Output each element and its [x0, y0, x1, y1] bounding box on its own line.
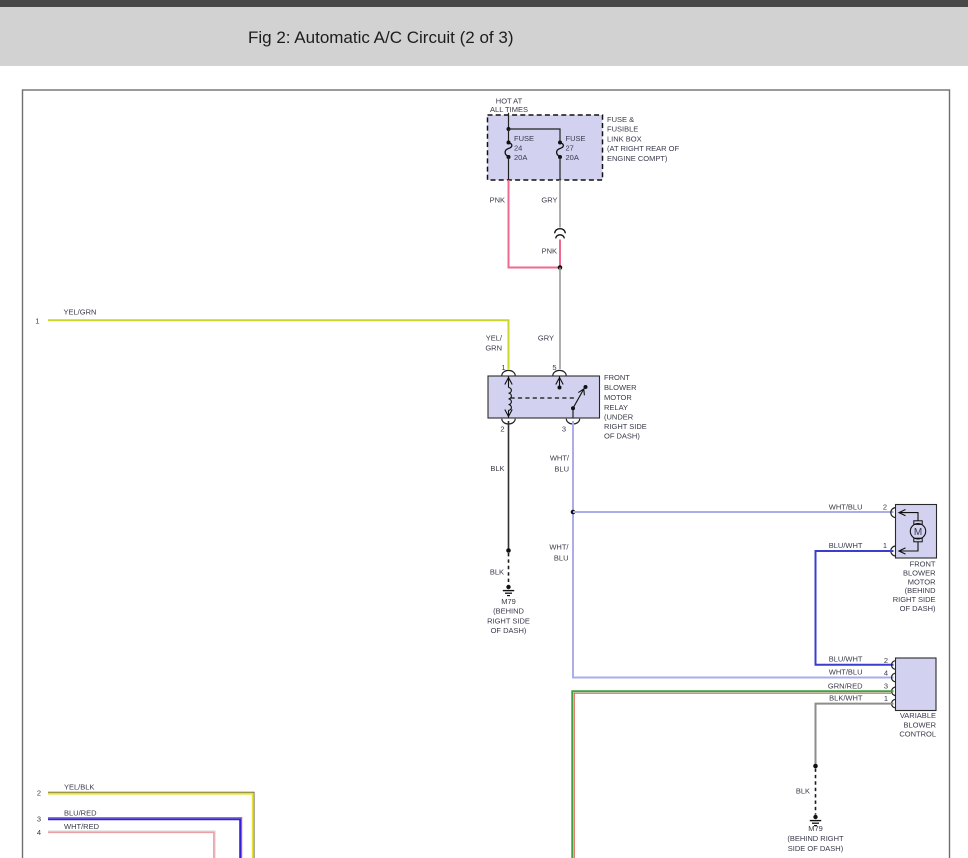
svg-text:CONTROL: CONTROL: [899, 730, 936, 739]
wire PNK below connector: [559, 240, 561, 267]
wire WHT/RED: [48, 831, 215, 858]
node junction WHT/BLU: [571, 510, 576, 515]
pin 3 connector arc: [566, 419, 579, 424]
label VARIABLE BLOWER CONTROL: [899, 711, 936, 739]
wire YEL/GRN to relay pin 1: [48, 320, 509, 369]
svg-text:BLK/WHT: BLK/WHT: [829, 694, 863, 703]
ground M79: [503, 585, 514, 596]
svg-text:BLU: BLU: [554, 465, 569, 474]
inline connector on GRY/PNK wire: [555, 229, 566, 239]
label WHT/BLU lower: [549, 543, 569, 563]
label FUSE & FUSIBLE LINK BOX: [607, 115, 680, 163]
svg-text:BLU/WHT: BLU/WHT: [829, 655, 863, 664]
svg-text:(UNDER: (UNDER: [604, 413, 634, 422]
svg-text:(BEHIND RIGHT: (BEHIND RIGHT: [787, 834, 844, 843]
svg-text:M: M: [914, 527, 922, 538]
svg-text:ENGINE COMPT): ENGINE COMPT): [607, 154, 668, 163]
ground M79 lower: [810, 815, 821, 826]
svg-text:GRY: GRY: [538, 334, 554, 343]
wire WHT/BLU from relay pin 3: [572, 421, 574, 677]
svg-text:3: 3: [884, 682, 888, 691]
variable blower control U2: [892, 658, 937, 711]
svg-text:PNK: PNK: [490, 196, 505, 205]
wire PNK from fuse 24: [509, 180, 561, 268]
relay switch arm: [573, 389, 584, 418]
svg-text:BLOWER: BLOWER: [604, 383, 637, 392]
svg-text:OF DASH): OF DASH): [900, 604, 936, 613]
svg-text:FRONT: FRONT: [910, 560, 936, 569]
svg-text:WHT/RED: WHT/RED: [64, 822, 100, 831]
node junction BLK/WHT: [813, 764, 818, 769]
svg-text:YEL/: YEL/: [486, 334, 503, 343]
svg-text:RIGHT SIDE: RIGHT SIDE: [604, 422, 647, 431]
svg-text:BLU: BLU: [554, 554, 569, 563]
label FRONT BLOWER MOTOR: [893, 560, 936, 614]
svg-text:3: 3: [37, 815, 41, 824]
node junction BLK: [506, 548, 511, 553]
svg-text:FUSE &: FUSE &: [607, 115, 634, 124]
svg-text:OF DASH): OF DASH): [604, 432, 640, 441]
svg-text:WHT/: WHT/: [549, 543, 569, 552]
svg-text:WHT/BLU: WHT/BLU: [829, 503, 863, 512]
label WHT/BLU: [550, 454, 570, 474]
node junction above fuse 24: [507, 127, 511, 131]
svg-text:1: 1: [883, 541, 887, 550]
svg-text:BLK: BLK: [490, 568, 504, 577]
label HOT AT ALL TIMES: [490, 97, 528, 114]
svg-text:RIGHT SIDE: RIGHT SIDE: [893, 595, 936, 604]
title bar: [0, 7, 968, 66]
svg-text:2: 2: [500, 424, 504, 433]
svg-text:(AT RIGHT REAR OF: (AT RIGHT REAR OF: [607, 144, 680, 153]
front blower motor relay U1: [488, 376, 600, 418]
svg-text:FUSE: FUSE: [566, 134, 586, 143]
wire BLK from relay pin 2: [508, 421, 510, 551]
svg-text:YEL/BLK: YEL/BLK: [64, 783, 94, 792]
svg-text:WHT/BLU: WHT/BLU: [829, 667, 863, 676]
wire YEL/BLK: [48, 792, 254, 858]
label M79 (BEHIND RIGHT SIDE OF DASH): [487, 597, 530, 635]
wire GRN/RED from vbc pin 3: [572, 691, 893, 858]
svg-text:2: 2: [884, 656, 888, 665]
top dark strip: [0, 0, 968, 7]
svg-text:FUSIBLE: FUSIBLE: [607, 125, 638, 134]
label FRONT BLOWER MOTOR RELAY: [604, 373, 647, 441]
node junction PNK: [558, 265, 563, 270]
wire BLK dashed to ground: [508, 553, 510, 585]
svg-text:MOTOR: MOTOR: [604, 393, 632, 402]
wire GRY to relay pin 5: [559, 268, 561, 370]
svg-text:BLOWER: BLOWER: [903, 568, 936, 577]
svg-text:2: 2: [883, 503, 887, 512]
relay pin 5 contact: [556, 377, 563, 388]
svg-text:GRN: GRN: [485, 344, 502, 353]
svg-text:M79: M79: [808, 824, 823, 833]
wire WHT/BLU to motor pin 2: [573, 511, 894, 513]
svg-text:ALL TIMES: ALL TIMES: [490, 105, 528, 114]
pin 1 connector arc: [502, 370, 515, 375]
svg-text:PNK: PNK: [542, 247, 557, 256]
relay coil: [505, 377, 512, 418]
pin 2 connector arc: [502, 419, 515, 424]
title text: [248, 28, 513, 48]
label YEL/GRN at relay: [485, 334, 503, 353]
svg-text:BLK: BLK: [490, 464, 504, 473]
svg-text:GRN/RED: GRN/RED: [828, 681, 863, 690]
svg-text:4: 4: [37, 828, 41, 837]
wire WHT/BLU to variable blower control pin 4: [573, 677, 894, 678]
wire from HOT AT into box: [508, 113, 510, 129]
svg-text:BLK: BLK: [796, 786, 810, 795]
svg-text:20A: 20A: [514, 153, 527, 162]
fuse 24 20A: [505, 134, 534, 180]
svg-text:(BEHIND: (BEHIND: [905, 586, 936, 595]
front blower motor M1: [891, 505, 937, 559]
svg-text:FUSE: FUSE: [514, 134, 534, 143]
svg-text:20A: 20A: [566, 153, 579, 162]
label M79 (BEHIND RIGHT SIDE OF DASH): [787, 824, 844, 853]
wire BLK/WHT from vbc pin 1: [816, 704, 894, 766]
svg-text:BLU/RED: BLU/RED: [64, 808, 97, 817]
svg-text:(BEHIND: (BEHIND: [493, 607, 524, 616]
svg-text:YEL/GRN: YEL/GRN: [64, 308, 97, 317]
wire BLU/RED: [48, 818, 242, 858]
svg-text:VARIABLE: VARIABLE: [900, 711, 936, 720]
svg-text:M79: M79: [501, 597, 516, 606]
svg-text:LINK BOX: LINK BOX: [607, 134, 642, 143]
svg-text:27: 27: [566, 144, 574, 153]
svg-text:1: 1: [35, 316, 39, 325]
fuse & fusible link box: [488, 115, 603, 180]
wire BLK dashed to ground M79: [815, 769, 817, 815]
relay dashed actuation line: [511, 397, 577, 399]
svg-text:SIDE OF DASH): SIDE OF DASH): [788, 844, 844, 853]
svg-text:RELAY: RELAY: [604, 403, 628, 412]
wire junction to fuse 27: [509, 129, 561, 143]
svg-text:3: 3: [562, 424, 566, 433]
wire GRY from fuse 27: [559, 180, 561, 228]
svg-text:1: 1: [884, 694, 888, 703]
fuse 27 20A: [557, 134, 586, 180]
pin 5 connector arc: [553, 370, 566, 375]
svg-text:4: 4: [884, 668, 888, 677]
svg-text:2: 2: [37, 788, 41, 797]
wire BLU/WHT motor pin1 to vbc pin 2: [816, 551, 894, 665]
svg-text:FRONT: FRONT: [604, 373, 630, 382]
svg-text:BLU/WHT: BLU/WHT: [829, 541, 863, 550]
wire junction to fuse 24: [508, 129, 510, 143]
svg-text:OF DASH): OF DASH): [491, 626, 527, 635]
svg-text:BLOWER: BLOWER: [903, 720, 936, 729]
svg-text:GRY: GRY: [541, 196, 557, 205]
svg-text:MOTOR: MOTOR: [908, 577, 936, 586]
svg-text:24: 24: [514, 144, 522, 153]
svg-text:WHT/: WHT/: [550, 454, 570, 463]
svg-text:RIGHT SIDE: RIGHT SIDE: [487, 616, 530, 625]
